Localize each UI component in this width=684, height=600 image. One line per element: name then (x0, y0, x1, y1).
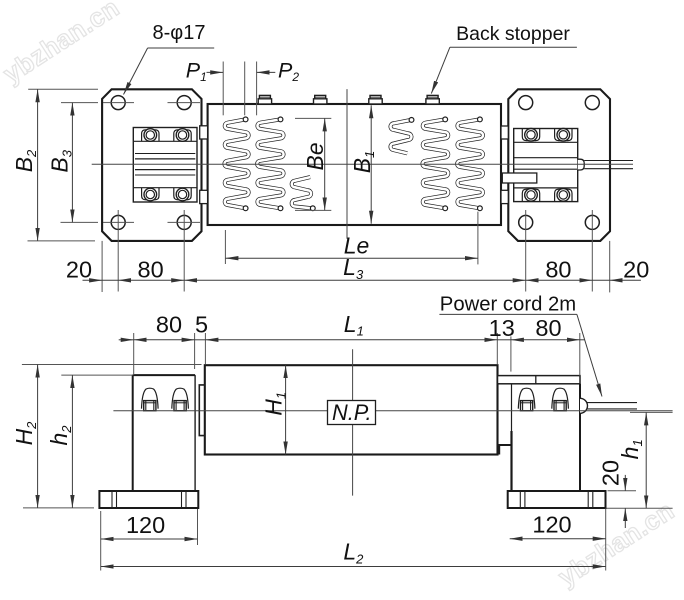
svg-text:13: 13 (489, 315, 515, 341)
svg-text:120: 120 (532, 512, 571, 538)
svg-text:20: 20 (623, 256, 649, 282)
svg-text:Power cord 2m: Power cord 2m (440, 293, 576, 315)
svg-text:120: 120 (126, 512, 165, 538)
svg-text:Back stopper: Back stopper (456, 23, 570, 45)
svg-text:Be: Be (302, 142, 328, 170)
svg-text:20: 20 (598, 460, 624, 486)
svg-text:N.P.: N.P. (332, 400, 372, 425)
svg-text:80: 80 (535, 315, 561, 341)
svg-text:20: 20 (66, 256, 92, 282)
svg-text:80: 80 (156, 312, 182, 338)
svg-text:8-φ17: 8-φ17 (153, 22, 206, 44)
svg-text:80: 80 (545, 256, 571, 282)
svg-text:80: 80 (138, 256, 164, 282)
svg-text:5: 5 (195, 312, 208, 338)
